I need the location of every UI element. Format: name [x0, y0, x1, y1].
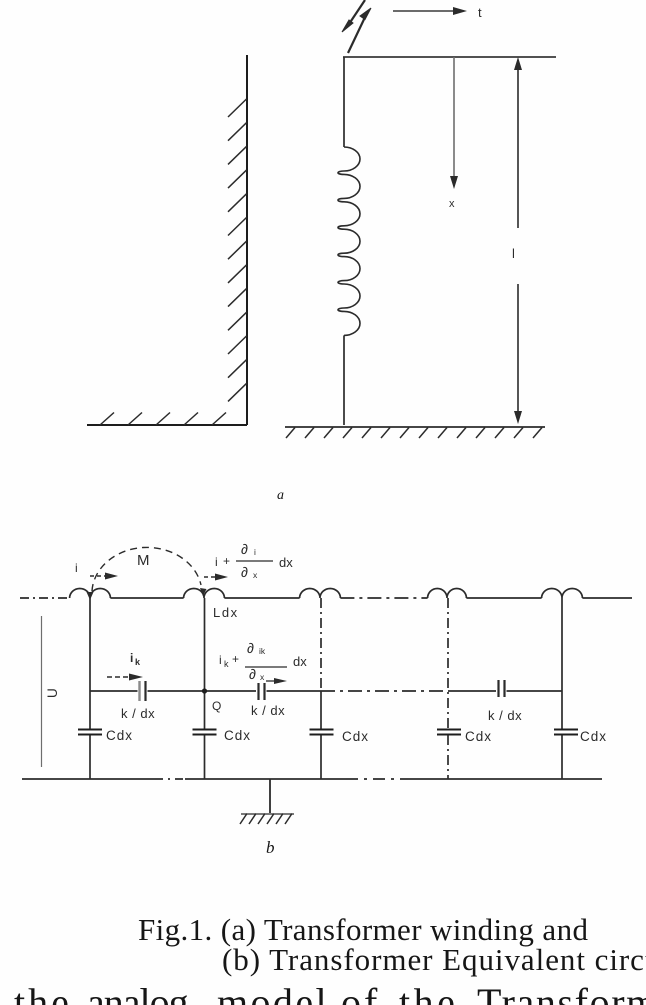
wire: top rail seg 4-5 [466, 597, 541, 599]
wire: top rail seg 2-3 [224, 597, 299, 599]
svg-text:i: i [75, 561, 78, 575]
capacitor Cdx 4 [437, 729, 461, 731]
svg-text:∂: ∂ [241, 564, 248, 580]
wire: mid rail cap1-b2 [148, 690, 257, 692]
shunt capacitors Cdx [78, 730, 578, 735]
arrow wedge at branch 1 top [87, 592, 94, 600]
svg-text:Cdx: Cdx [342, 729, 369, 744]
svg-text:the: the [14, 980, 72, 1005]
capacitor k/dx 4 [497, 680, 499, 697]
wire: branch 1 [89, 598, 91, 729]
svg-text:i: i [219, 653, 222, 667]
wall base hatching [100, 413, 226, 426]
fraction bar di/dx [236, 560, 273, 562]
svg-text:l: l [512, 246, 515, 261]
time axis arrow t [393, 7, 467, 15]
capacitor Cdx 1 [78, 729, 102, 731]
svg-text:+: + [232, 652, 239, 666]
svg-text:(b) Transformer Equivalent cir: (b) Transformer Equivalent circuit [222, 942, 646, 977]
node Q dot [202, 688, 207, 693]
U bracket line [41, 616, 43, 767]
inductor Ldx 2 [184, 589, 225, 599]
svg-text:ik: ik [259, 646, 266, 656]
winding ground line [285, 426, 545, 428]
capacitor Cdx 5 [554, 729, 578, 731]
wire: mid rail cap4-b5 [507, 690, 563, 692]
top rail with inductors [20, 588, 632, 598]
body text fragment [14, 980, 646, 1005]
winding top rail [343, 56, 556, 58]
wire: mid rail b4-cap4 [448, 690, 496, 692]
wire: branch 4 (dash-dot) [447, 598, 449, 729]
svg-text:+: + [223, 554, 230, 568]
svg-text:∂: ∂ [241, 541, 248, 557]
svg-text:Ldx: Ldx [213, 605, 239, 620]
svg-text:U: U [45, 688, 60, 698]
wire: mid rail dash-dot b3-b4 [321, 690, 448, 692]
svg-text:Cdx: Cdx [224, 728, 251, 743]
svg-text:Cdx: Cdx [580, 729, 607, 744]
fraction bar dik/dx [245, 666, 287, 668]
capacitor Cdx 3 [310, 729, 334, 731]
svg-text:the: the [399, 980, 458, 1005]
svg-text:t: t [478, 5, 482, 20]
winding coil [338, 147, 360, 335]
mid rail with series capacitors [90, 680, 562, 701]
capacitor k/dx 1 [138, 681, 140, 701]
wire: top rail left dash-dot [20, 597, 70, 599]
label i + di/dx dx [215, 541, 293, 580]
svg-text:analog: analog [87, 980, 189, 1005]
label ik [130, 651, 141, 667]
lightning surge arrow [342, 0, 371, 53]
winding ground hatching [286, 428, 542, 439]
inductor Ldx 3 [300, 588, 341, 598]
svg-text:∂: ∂ [249, 666, 256, 682]
capacitor k/dx 2 [257, 683, 259, 700]
wall vertical [246, 55, 248, 425]
svg-text:Q: Q [212, 699, 221, 713]
current arrow ik [107, 674, 143, 681]
svg-text:∂: ∂ [247, 640, 254, 656]
wire: bottom rail [22, 778, 155, 780]
inductor Ldx 1 [70, 589, 111, 599]
bottom rail [22, 778, 602, 780]
winding top lead [343, 57, 345, 147]
svg-text:model: model [217, 980, 329, 1005]
wire: top rail right end [582, 597, 632, 599]
svg-text:i: i [215, 555, 218, 569]
dimension line l [514, 57, 522, 424]
svg-text:k: k [224, 659, 229, 669]
svg-text:dx: dx [279, 555, 293, 570]
wire: branch 3 (dash-dot upper) [320, 598, 322, 691]
labels Cdx [106, 728, 607, 744]
wall base line [87, 424, 247, 426]
svg-text:b: b [266, 838, 275, 857]
small arrow under dx [274, 678, 287, 684]
wire: top rail dash-dot seg 3-4 [340, 597, 427, 599]
svg-text:k / dx: k / dx [121, 706, 155, 721]
svg-text:i: i [130, 651, 133, 665]
svg-text:of: of [341, 980, 380, 1005]
ground stub [269, 779, 271, 813]
svg-text:Cdx: Cdx [465, 729, 492, 744]
wire: top rail seg 1-2 [110, 597, 183, 599]
branch wires [90, 598, 562, 779]
x axis arrow [450, 57, 458, 189]
svg-text:k / dx: k / dx [251, 703, 285, 718]
wire: mid rail cap2-b3 [267, 690, 322, 692]
svg-text:dx: dx [293, 654, 307, 669]
ground symbol [240, 814, 294, 825]
current arrow i [90, 573, 118, 580]
svg-text:k / dx: k / dx [488, 708, 522, 723]
capacitor Cdx 2 [193, 729, 217, 731]
wire: mid rail b1-cap1 [90, 690, 138, 692]
mutual coupling arc M [92, 547, 201, 591]
wall hatching [228, 99, 247, 401]
wire: branch 5 [561, 598, 563, 729]
svg-text:i: i [254, 547, 256, 557]
arrow wedge at branch 2 top (arc end) [200, 588, 207, 596]
svg-text:M: M [137, 552, 150, 569]
inductor Ldx 5 [542, 589, 583, 599]
current arrow i+di [204, 574, 228, 581]
inductor Ldx 4 [428, 589, 467, 599]
label ik + dik/dx dx [219, 640, 307, 682]
svg-text:Transformer: Transformer [477, 980, 646, 1005]
winding bottom lead [343, 335, 345, 425]
svg-text:x: x [449, 198, 455, 210]
svg-text:a: a [277, 488, 284, 503]
svg-text:Cdx: Cdx [106, 728, 133, 743]
wire: branch 2 [204, 598, 206, 729]
